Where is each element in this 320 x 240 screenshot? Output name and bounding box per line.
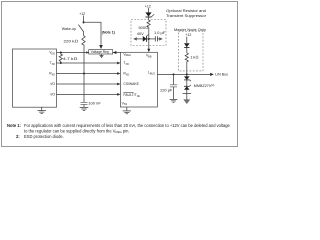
svg-text:ESD protection diode.: ESD protection diode.: [24, 134, 64, 139]
svg-text:500Ω: 500Ω: [139, 25, 148, 30]
wire IO1 line: [57, 83, 120, 85]
diode D3 master node: [184, 43, 190, 47]
wire +12 VBB stem: [148, 8, 150, 13]
svg-text:100 nF: 100 nF: [88, 101, 101, 106]
ground arrow G6 bar: [183, 93, 192, 95]
ground G3 under voltage reg: [101, 54, 103, 56]
zener D2 40V in dashed box: [143, 35, 149, 42]
arrow RXD into MCP201: [117, 72, 120, 75]
svg-text:2:: 2:: [16, 134, 20, 139]
wire VREG line right segment: [113, 52, 121, 54]
optional dashed box: [131, 20, 166, 46]
diode D1 top right (+12 reverse protection): [145, 12, 154, 17]
arrow TXD into MCP201: [117, 62, 120, 65]
svg-text:LIN Bus: LIN Bus: [215, 72, 228, 76]
resistor R 4.7k: [59, 53, 62, 64]
wire VDD line left segment: [57, 52, 89, 54]
capacitor C 100nF: [81, 101, 88, 103]
MCU block U1: [13, 49, 57, 107]
arrow TVS branch left: [133, 37, 137, 40]
wire cap to ground: [83, 105, 85, 108]
svg-text:Transient Suppressor: Transient Suppressor: [166, 14, 207, 18]
svg-text:For applications with current: For applications with current requiremen…: [24, 123, 231, 128]
svg-text:1 kΩ: 1 kΩ: [190, 54, 198, 59]
master node vertical wire: [186, 37, 188, 43]
wire RXD line: [57, 73, 120, 75]
MCP201 pin labels: [122, 52, 156, 106]
wire top horizontal to Note1: [84, 22, 102, 45]
wire 220pF drop: [173, 74, 175, 84]
arrow into VReg right (pointing left): [113, 51, 117, 54]
border frame: [2, 2, 238, 147]
node RXD junction: [83, 73, 85, 75]
node VBB branch: [148, 38, 150, 40]
switch SW1 blade: [78, 25, 83, 32]
svg-text:Note 1:: Note 1:: [7, 123, 21, 128]
TVS branch wire: [134, 38, 143, 40]
svg-text:+12: +12: [185, 33, 191, 37]
node wake-up T junction: [83, 21, 85, 23]
wire TXD line: [57, 62, 120, 64]
LBUS line: [157, 73, 211, 75]
ground arrow G6 head: [183, 99, 190, 104]
ground G4 under 220pF: [170, 98, 178, 100]
capacitor C 1.0uF plates: [154, 36, 156, 41]
wire +12 wake-up stem: [83, 16, 85, 24]
arrow into VBB: [147, 49, 150, 52]
capacitor C 220pF: [170, 84, 177, 86]
node LBUS master: [186, 73, 188, 75]
svg-text:40V: 40V: [137, 31, 144, 36]
zener D5 MMBZ bottom (pointing up): [184, 85, 191, 90]
arrow IO2 into MCP201: [117, 93, 120, 96]
svg-text:I/O: I/O: [50, 82, 55, 86]
wire diode to dashed box, through to VBB arrow: [148, 17, 150, 20]
svg-text:Wake-up: Wake-up: [62, 27, 76, 31]
resistor R 500ohm: [147, 20, 150, 27]
node 4.7k bottom: [60, 62, 62, 64]
ground G1 under 100nF: [80, 106, 89, 108]
arrow LIN Bus: [210, 73, 214, 76]
wire IO2 line: [57, 93, 120, 95]
svg-text:CS/WAKE: CS/WAKE: [123, 82, 139, 86]
arrow TVS branch right: [159, 37, 163, 40]
svg-text:4.7 kΩ: 4.7 kΩ: [63, 56, 77, 61]
arrow into VReg top (Note 1): [99, 45, 103, 49]
svg-text:+12: +12: [145, 5, 151, 9]
ground G2 under MCU block: [41, 107, 43, 110]
labels: [62, 5, 228, 106]
svg-text:1.0 µF: 1.0 µF: [154, 30, 166, 35]
svg-text:Optional Resistor and: Optional Resistor and: [166, 9, 206, 13]
wire switch to resistor: [83, 31, 85, 35]
arrowheads: [86, 37, 214, 96]
arrow IO1 into MCP201: [117, 83, 120, 86]
node 4.7k top: [60, 52, 62, 54]
note text: [7, 123, 231, 139]
pin FAULT overline: [123, 92, 133, 94]
arrow into VReg left: [86, 51, 88, 53]
wire 1k to LIN line and zeners: [186, 62, 188, 77]
wire 220k down to RXD junction and 100nF: [83, 45, 85, 102]
svg-text:220 pF: 220 pF: [160, 87, 173, 92]
svg-text:(Note 1): (Note 1): [102, 31, 115, 35]
resistor R 220k: [82, 36, 85, 46]
zener D4 MMBZ top (pointing down): [184, 76, 191, 81]
voltage regulator box: [89, 50, 113, 54]
zener pair wires: [186, 80, 188, 86]
MCP201 block U2: [120, 52, 157, 107]
MCU pin labels: [49, 51, 55, 97]
node LBUS 220pF: [173, 73, 175, 75]
ground G5 under MCP201: [126, 107, 128, 111]
svg-text:I/O: I/O: [50, 93, 55, 97]
svg-text:+12: +12: [79, 12, 85, 16]
svg-text:Master Node Only: Master Node Only: [174, 28, 206, 32]
svg-text:Voltage Reg: Voltage Reg: [91, 50, 109, 54]
junction dots: [60, 21, 188, 75]
svg-text:220 kΩ: 220 kΩ: [64, 38, 79, 43]
resistor R 1k: [185, 53, 188, 62]
master node dashed box: [179, 31, 204, 71]
